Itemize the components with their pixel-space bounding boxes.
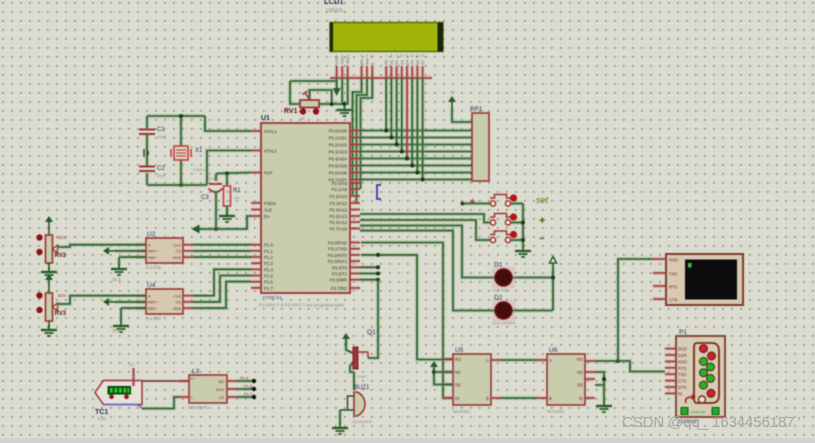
svg-text:P0.0/AD0: P0.0/AD0 [329,129,348,134]
svg-text:SDA: SDA [173,306,182,311]
svg-text:30pF: 30pF [157,134,167,139]
svg-text:5V: 5V [450,90,455,94]
svg-text:4: 4 [361,54,363,58]
svg-text:10uF: 10uF [207,176,217,181]
svg-text:RP1: RP1 [470,106,483,113]
svg-text:P1.5: P1.5 [240,376,249,381]
svg-text:36.5: 36.5 [112,328,121,333]
svg-text:RST: RST [264,171,273,176]
svg-text:TC1: TC1 [95,409,108,416]
svg-text:13: 13 [415,54,419,58]
svg-text:P1.2: P1.2 [264,255,273,260]
svg-text:P3.5/T1: P3.5/T1 [332,272,348,277]
svg-text:CTS: CTS [669,298,678,303]
svg-text:85%: 85% [58,235,67,240]
svg-text:DSR: DSR [678,353,687,358]
svg-text:P2.0/P2.7 & P3.0/P3.7 are prog: P2.0/P2.7 & P3.0/P3.7 are programmable [259,303,344,308]
svg-text:P1.0: P1.0 [264,243,273,248]
svg-text:P0.4/AD4: P0.4/AD4 [329,157,348,162]
svg-text:11: 11 [405,54,409,58]
svg-text:P1.6: P1.6 [264,280,273,285]
svg-text:9: 9 [396,54,398,58]
svg-text:12: 12 [410,54,414,58]
svg-text:T+: T+ [190,376,195,381]
svg-text:B: B [486,396,489,401]
svg-text:P0.1/AD1: P0.1/AD1 [329,136,348,141]
svg-text:U4: U4 [147,282,156,289]
svg-text:1k: 1k [300,116,306,121]
svg-text:RE: RE [455,370,461,375]
svg-text:P0.5/AD5: P0.5/AD5 [329,164,348,169]
svg-text:XTAL2: XTAL2 [264,149,277,154]
svg-text:PSEN: PSEN [264,201,276,206]
svg-text:LED-GREEN: LED-GREEN [492,321,515,326]
svg-text:MAX481: MAX481 [453,409,471,414]
svg-text:3: 3 [347,54,349,58]
svg-text:RO: RO [455,357,462,362]
svg-text:U6: U6 [549,347,558,354]
svg-text:Q1: Q1 [367,329,376,336]
svg-text:P1.3: P1.3 [264,261,273,266]
svg-text:P1: P1 [679,329,687,336]
svg-text:B: B [549,396,552,401]
svg-text:P0.6/AD6: P0.6/AD6 [329,171,348,176]
svg-text:A: A [148,243,151,248]
svg-text:2: 2 [341,54,343,58]
svg-text:AT89C51: AT89C51 [262,295,282,301]
svg-text:U5: U5 [455,347,464,354]
svg-text:RV3: RV3 [55,311,67,317]
svg-text:X1: X1 [195,148,203,154]
svg-text:+: + [539,215,545,227]
svg-text:C1: C1 [157,127,165,133]
svg-text:8: 8 [390,54,392,58]
svg-text:R1: R1 [233,188,241,194]
svg-text:P3.2/INT0: P3.2/INT0 [328,253,348,258]
svg-text:RXD: RXD [669,258,678,263]
svg-text:CS: CS [218,395,224,400]
svg-text:U2: U2 [147,231,156,238]
svg-text:RV1: RV1 [284,108,298,115]
svg-text:P1.6: P1.6 [244,384,253,389]
svg-text:A: A [549,358,552,363]
svg-text:P0.2/AD2: P0.2/AD2 [329,143,348,148]
svg-text:7: 7 [385,54,387,58]
svg-text:ALE: ALE [264,208,272,213]
svg-text:P3.1/TXD: P3.1/TXD [328,247,347,252]
svg-text:P2.6/A14: P2.6/A14 [329,220,347,225]
svg-text:C2: C2 [157,166,165,172]
svg-text:P1.7: P1.7 [244,392,253,397]
svg-text:MAX481: MAX481 [547,409,565,414]
svg-text:TXD: TXD [669,272,677,277]
svg-text:D1: D1 [494,262,503,269]
svg-text:DCD: DCD [678,347,687,352]
svg-text:SOUNDER: SOUNDER [352,419,372,424]
svg-text:TLC549: TLC549 [145,316,162,321]
svg-text:REF-: REF- [148,306,158,311]
svg-text:46%: 46% [58,293,67,298]
svg-text:–: – [539,233,545,244]
svg-text:RW: RW [365,58,370,65]
svg-text:SDA: SDA [173,255,182,260]
svg-text:BUZ1: BUZ1 [354,385,370,391]
svg-text:P1.5: P1.5 [264,274,273,279]
svg-text:14: 14 [421,54,425,58]
svg-text:RV2: RV2 [55,253,67,259]
svg-text:P2.0/A8: P2.0/A8 [332,181,348,186]
svg-text:CS: CS [175,300,181,305]
svg-text:RXD: RXD [678,359,687,364]
svg-text:P2.4/A12: P2.4/A12 [329,208,347,213]
svg-text:REF+: REF+ [148,249,159,254]
svg-text:A: A [486,358,489,363]
svg-text:P1.1: P1.1 [264,249,273,254]
svg-text:LCD1: LCD1 [324,0,344,6]
svg-text:DE: DE [455,383,461,388]
svg-text:LM016L: LM016L [326,8,344,14]
svg-text:REF+: REF+ [148,300,159,305]
svg-text:E: E [370,62,375,65]
svg-text:RE: RE [577,370,583,375]
svg-text:P2.2/A10: P2.2/A10 [329,194,347,199]
svg-text:RS: RS [359,59,364,65]
svg-text:P2.5/A13: P2.5/A13 [329,214,347,219]
svg-text:P3.7/RD: P3.7/RD [331,286,347,291]
svg-text:XTAL1: XTAL1 [264,129,277,134]
svg-text:U1: U1 [261,115,270,122]
svg-text:REF-: REF- [148,255,158,260]
svg-text:RTS: RTS [669,285,678,290]
svg-text:RO: RO [577,357,584,362]
svg-text:10: 10 [400,54,404,58]
svg-text:DTR: DTR [678,385,687,390]
svg-text:A: A [148,294,151,299]
svg-text:SCK: SCK [216,387,225,392]
svg-text:10k: 10k [233,195,239,200]
svg-text:RTS: RTS [678,366,687,371]
svg-text:EA: EA [264,214,270,219]
svg-text:P1.7: P1.7 [264,286,273,291]
svg-text:5: 5 [366,54,368,58]
svg-text:DI: DI [455,396,459,401]
svg-text:DI: DI [579,396,583,401]
svg-text:TXD: TXD [678,372,686,377]
svg-text:P2.3/A11: P2.3/A11 [330,201,348,206]
svg-text:PNP: PNP [358,374,367,379]
svg-text:set: set [536,195,549,205]
svg-text:LED-RED: LED-RED [492,288,510,293]
svg-text:CLK: CLK [173,243,181,248]
svg-text:P3.6/WR: P3.6/WR [330,278,347,283]
svg-text:L2: L2 [129,362,135,367]
svg-text:RI: RI [678,391,682,396]
svg-text:DE: DE [577,383,583,388]
svg-text:D7: D7 [420,59,425,65]
svg-text:CLK: CLK [173,294,181,299]
svg-text:SO: SO [218,379,224,384]
svg-text:P3.3/INT1: P3.3/INT1 [328,259,348,264]
svg-text:C3: C3 [201,195,209,201]
svg-text:CS: CS [175,249,181,254]
svg-text:P0.3/AD3: P0.3/AD3 [329,150,348,155]
svg-text:CTS: CTS [678,379,687,384]
svg-text:D2: D2 [494,295,503,302]
svg-text:P2.1/A9: P2.1/A9 [332,187,348,192]
svg-text:P3.4/T0: P3.4/T0 [332,265,348,270]
svg-text:TCK: TCK [97,417,106,422]
svg-text:1: 1 [336,54,338,58]
svg-text:30pF: 30pF [157,173,167,178]
svg-text:6: 6 [371,54,373,58]
svg-text:36.5: 36.5 [112,277,121,282]
svg-text:12MHz: 12MHz [193,167,206,172]
svg-text:MAX6675: MAX6675 [188,405,208,410]
svg-text:P3.0/RXD: P3.0/RXD [328,241,347,246]
svg-text:P2.7/A15: P2.7/A15 [329,227,347,232]
svg-text:TLC549: TLC549 [145,265,162,270]
svg-text:P1.4: P1.4 [264,267,273,272]
svg-text:L3: L3 [192,368,200,375]
